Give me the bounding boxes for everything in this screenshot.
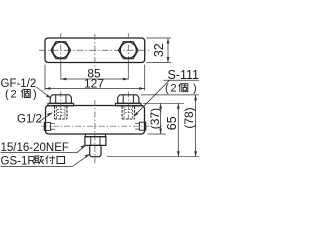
dimension 32 line [167, 38, 170, 63]
right side port [139, 122, 145, 130]
svg-text:2: 2 [171, 83, 177, 95]
svg-text:G1/2: G1/2 [17, 113, 42, 125]
hex bolt head right (top view) [119, 42, 139, 59]
left bolt washer [48, 103, 74, 106]
leader GS-1R取付口 [1, 166, 73, 168]
bottom fitting threaded stud [90, 145, 101, 156]
horizontal center line top view [39, 49, 152, 51]
left bolt hex head front [50, 95, 71, 104]
circle left hex [53, 42, 69, 58]
svg-text:15/16-20NEF: 15/16-20NEF [1, 142, 69, 154]
dimension 127 line [45, 87, 145, 90]
right bolt center line [127, 92, 129, 120]
left bolt center line [60, 92, 62, 120]
leader S-111 [134, 80, 170, 116]
leader 15/16-20NEF [1, 152, 78, 154]
vertical center line left hex [60, 33, 62, 63]
vertical center line mid [94, 34, 96, 70]
dimension 65 line [177, 103, 180, 156]
top view plate outline [45, 38, 145, 63]
dimension 127 extension lines [44, 65, 46, 91]
dimension (37) line [159, 103, 162, 134]
svg-text:(78): (78) [182, 107, 196, 128]
left bolt hidden thread [55, 106, 67, 119]
bottom fitting washer [85, 134, 105, 137]
svg-text:GS-1R: GS-1R [1, 155, 36, 167]
kanji 個 right [179, 83, 188, 92]
front view block outline [46, 106, 145, 135]
vertical center line front view [94, 100, 96, 164]
svg-text:): ) [33, 88, 37, 100]
vertical center line right hex [127, 33, 129, 63]
extension line block bottom level [148, 133, 166, 135]
dimension (78) line [194, 95, 197, 157]
leader GF-1/2 [36, 87, 50, 98]
svg-text:2: 2 [11, 88, 17, 100]
kanji 付 [46, 156, 55, 165]
leader G1/2 [39, 113, 52, 122]
right bolt hex head front [118, 95, 139, 104]
svg-text:32: 32 [152, 43, 166, 57]
svg-text:): ) [193, 83, 197, 95]
underline S-111 [164, 79, 200, 81]
svg-text:127: 127 [84, 77, 104, 91]
dimension 85 line [61, 78, 129, 81]
kanji 口 [57, 157, 65, 164]
left side port [44, 122, 50, 130]
kanji 取 [34, 156, 44, 164]
circle right hex [120, 42, 136, 58]
svg-text:(: ( [5, 88, 9, 100]
extension line hex top level [141, 94, 199, 96]
side port axis line [41, 125, 150, 127]
svg-text:(37): (37) [148, 108, 162, 129]
extension line fitting tip level [107, 156, 199, 158]
right bolt hidden thread [122, 106, 134, 119]
extension line washer top level [143, 102, 184, 104]
svg-text:65: 65 [165, 116, 179, 130]
dimension 32 extension lines [147, 37, 172, 39]
hex bolt head left (top view) [51, 42, 71, 59]
kanji 個 left [21, 89, 30, 98]
bottom fitting hex nut [85, 137, 106, 146]
right bolt washer [116, 103, 142, 106]
